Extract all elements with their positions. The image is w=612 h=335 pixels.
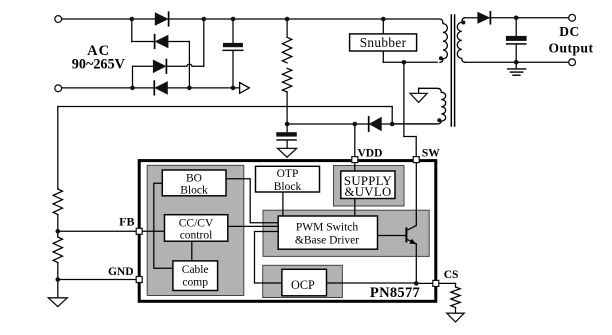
svg-text:SW: SW	[422, 148, 440, 160]
svg-text:Cable: Cable	[182, 264, 209, 276]
svg-text:Block: Block	[180, 185, 208, 197]
svg-text:OTP: OTP	[277, 168, 299, 180]
svg-text:OCP: OCP	[291, 278, 315, 292]
svg-text:90~265V: 90~265V	[72, 57, 126, 73]
svg-text:PN8577: PN8577	[370, 285, 420, 301]
svg-text:FB: FB	[119, 214, 134, 228]
svg-text:comp: comp	[182, 276, 208, 288]
svg-text:CC/CV: CC/CV	[179, 217, 214, 229]
svg-text:BO: BO	[186, 173, 202, 185]
svg-text:Block: Block	[274, 181, 302, 193]
svg-text:&UVLO: &UVLO	[345, 185, 392, 199]
svg-text:Snubber: Snubber	[360, 35, 407, 50]
svg-text:GND: GND	[108, 266, 134, 278]
svg-text:DC: DC	[559, 24, 580, 39]
svg-text:Output: Output	[548, 41, 593, 56]
svg-text:VDD: VDD	[358, 148, 383, 160]
svg-text:CS: CS	[444, 269, 459, 281]
svg-text:PWM Switch: PWM Switch	[296, 221, 359, 233]
svg-text:&Base Driver: &Base Driver	[295, 234, 359, 246]
svg-text:control: control	[180, 229, 213, 241]
